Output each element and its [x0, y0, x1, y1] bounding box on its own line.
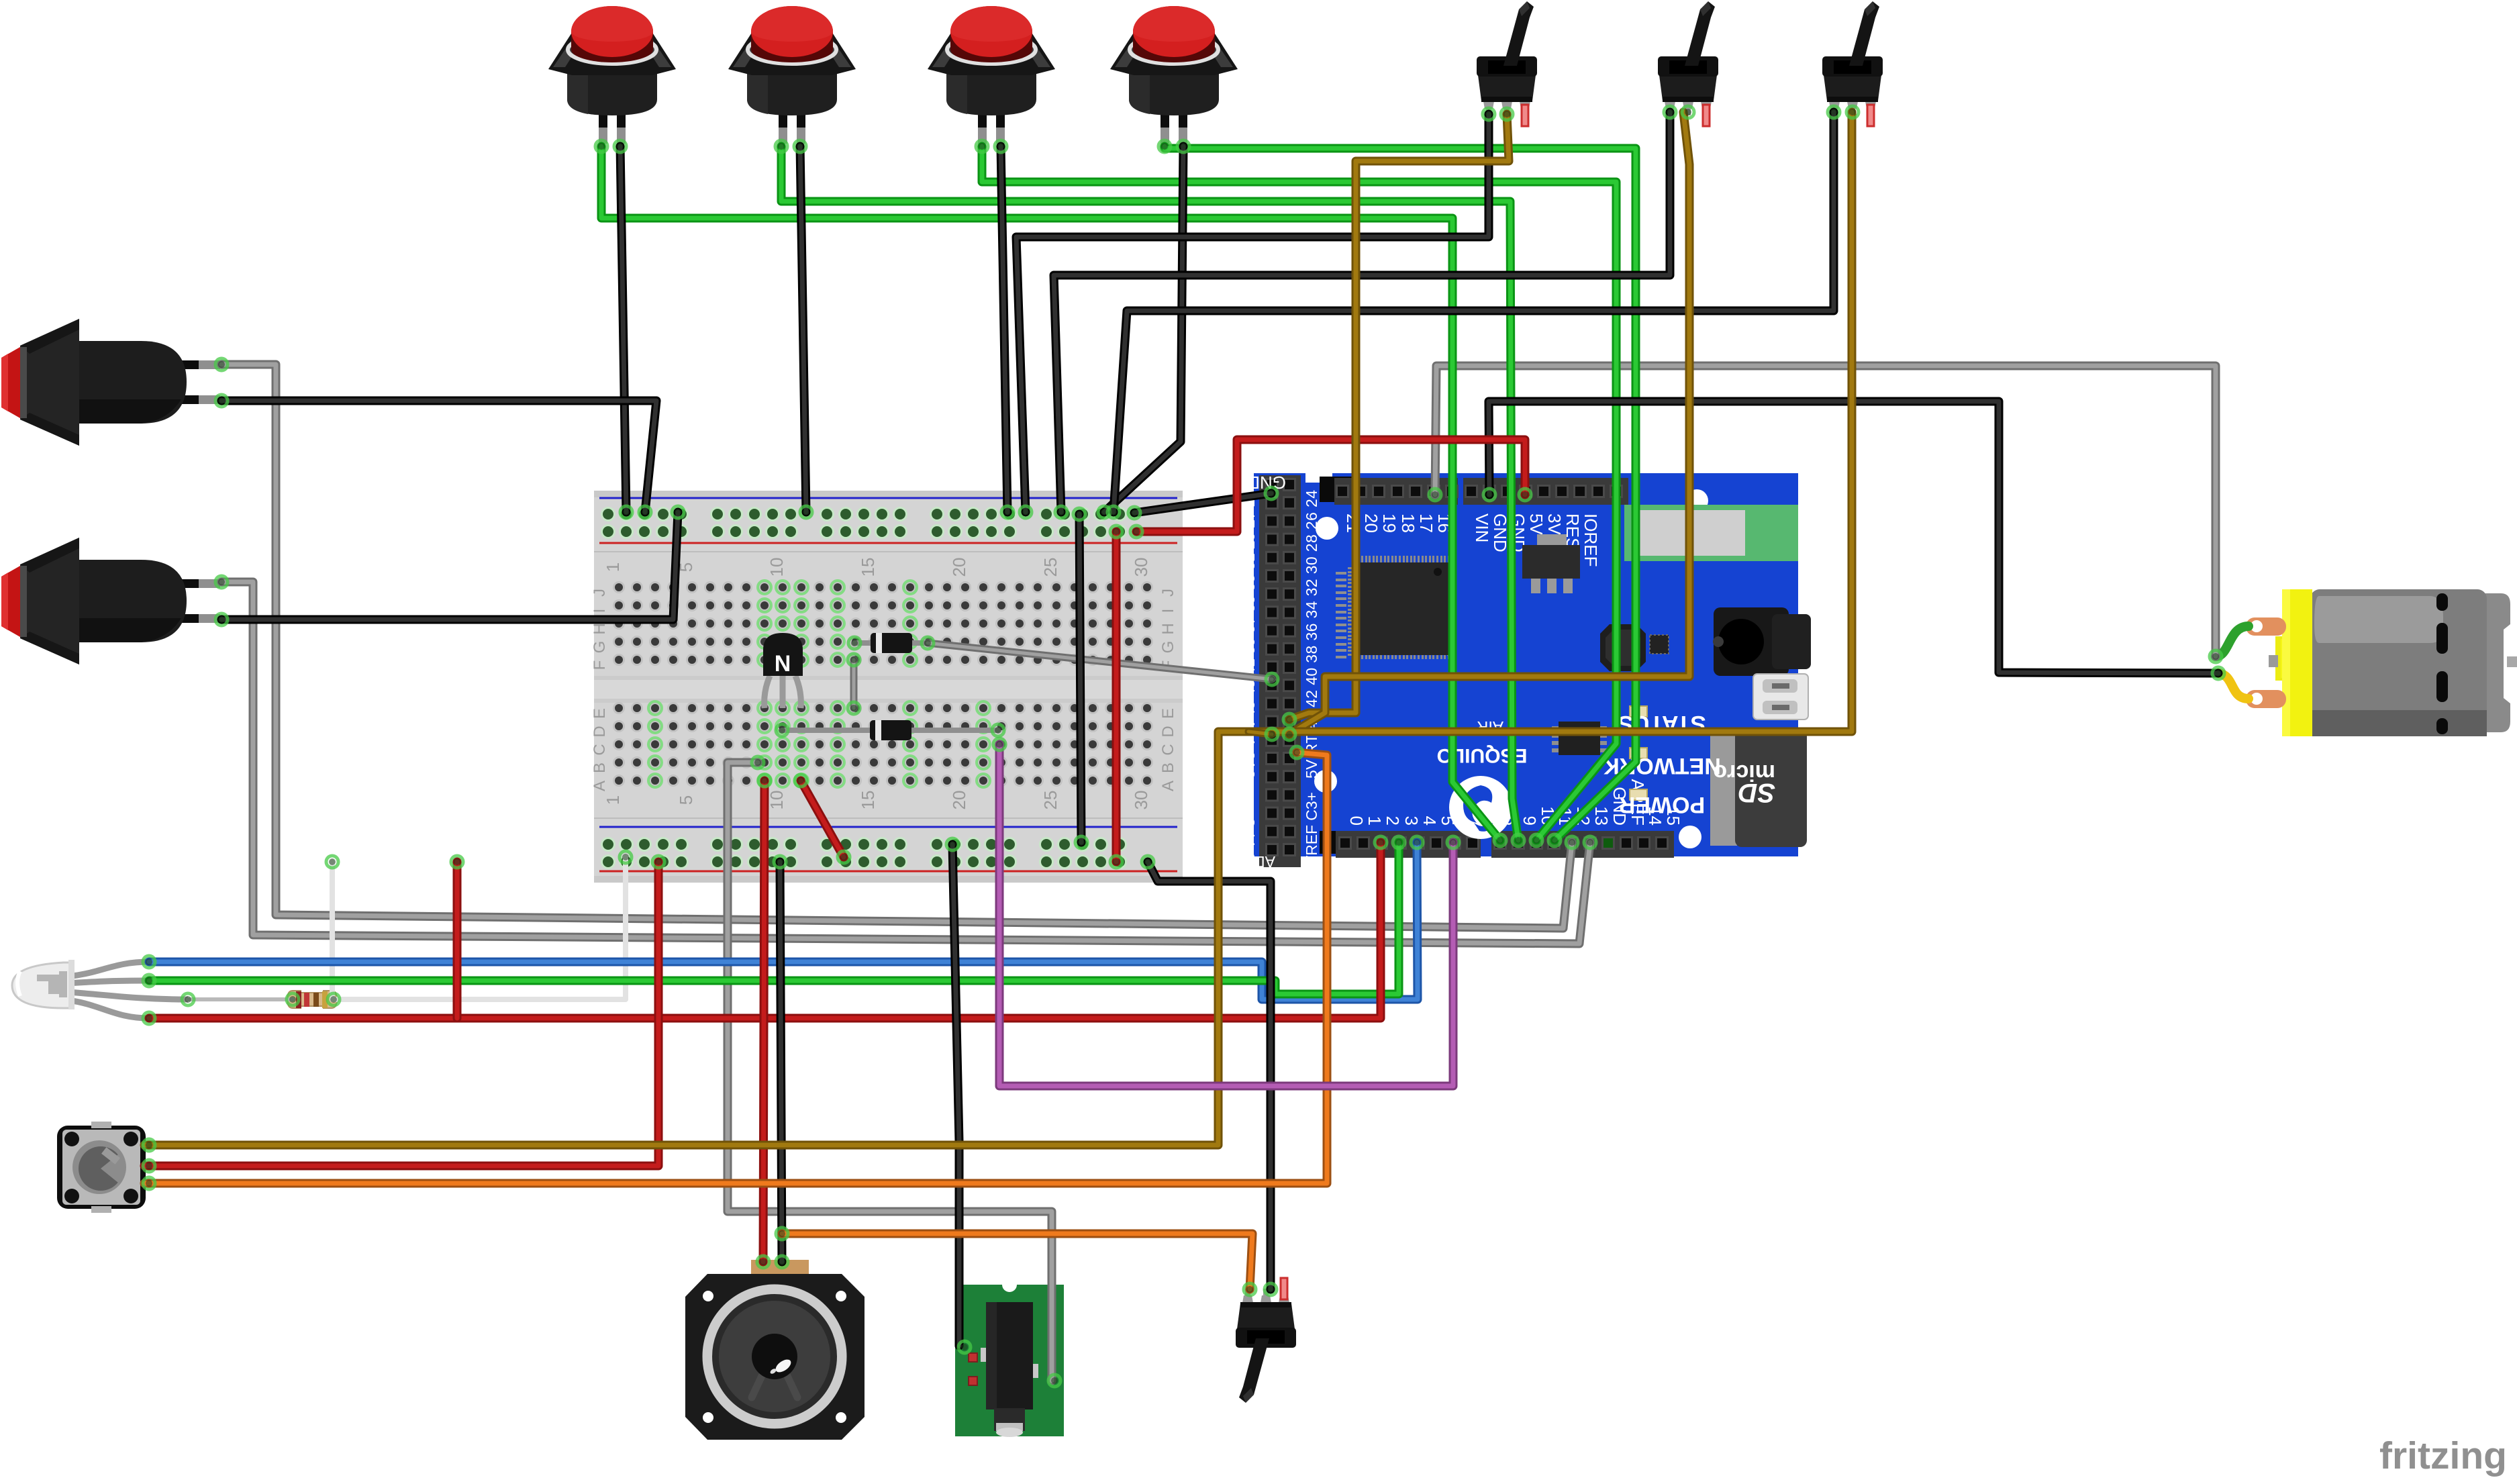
svg-text:D: D	[1159, 726, 1177, 737]
svg-text:5V: 5V	[1526, 513, 1546, 535]
svg-text:D: D	[591, 726, 609, 737]
crystal/oscillator octagon	[1600, 624, 1646, 671]
svg-text:H: H	[591, 623, 609, 634]
svg-text:9: 9	[1520, 816, 1540, 826]
wire: button S1 black to top rail	[620, 146, 626, 512]
wire: gold stub header pin 25	[1248, 732, 1272, 734]
svg-text:G: G	[1159, 641, 1177, 654]
speaker SPK1	[685, 1260, 865, 1440]
wire: red diagonal A12 to bottom rail	[801, 781, 844, 857]
svg-text:C: C	[591, 744, 609, 755]
voltage regulator	[1537, 534, 1567, 545]
svg-text:N: N	[775, 651, 791, 677]
wire: toggle SW2 gold to header pin 26	[1289, 112, 1689, 734]
svg-text:30: 30	[1131, 558, 1151, 577]
svg-text:I: I	[1159, 609, 1177, 613]
wire: LED blue to pin 4	[149, 842, 1418, 999]
Esquilo logo	[1449, 776, 1512, 839]
wire: speaker junction orange to bottom toggle SW4	[782, 1234, 1252, 1289]
RF/antenna module	[1624, 505, 1798, 561]
motor yellow lead	[2218, 673, 2249, 699]
microSD card	[1710, 732, 1737, 846]
wire: diode D1 gray lead to header pin 32	[928, 643, 1272, 679]
resistor R1	[287, 991, 337, 1008]
pushbutton S3	[928, 6, 1055, 144]
wire: gray jumper F13-E13	[850, 660, 858, 708]
motor green lead	[2216, 626, 2249, 656]
svg-text:17: 17	[1416, 513, 1436, 533]
wire: button S1 green to pin 8	[601, 146, 1500, 840]
svg-text:VREF C3+: VREF C3+	[1303, 792, 1320, 866]
DC motor M1	[2216, 589, 2517, 736]
svg-text:C: C	[1159, 744, 1177, 755]
svg-text:20: 20	[949, 791, 969, 810]
svg-text:4: 4	[1420, 816, 1440, 826]
wire: lamp L2 gray lead to pin 13	[221, 582, 1590, 944]
svg-text:SD: SD	[1738, 778, 1775, 807]
wire: lamp L1 black to top rail	[221, 401, 656, 512]
pushbutton S1	[548, 6, 676, 144]
DC barrel jack	[1714, 607, 1789, 676]
top pin header 21-16	[1334, 478, 1458, 505]
svg-text:20: 20	[1361, 513, 1381, 533]
svg-text:ADC4+: ADC4+	[1225, 853, 1275, 871]
svg-text:POWER: POWER	[1619, 792, 1705, 818]
svg-text:E: E	[1159, 708, 1177, 719]
wire: toggle SW1 gold to header pin 27	[1289, 114, 1509, 720]
svg-text:2: 2	[1383, 816, 1403, 826]
svg-text:E: E	[591, 708, 609, 719]
diode D1	[854, 633, 928, 653]
svg-text:30: 30	[1131, 791, 1151, 810]
wire: motor gray to header pin 16	[1435, 366, 2216, 656]
wire: lamp L2 black to top rail	[221, 512, 678, 620]
wire: lamp L1 gray lead to pin 12	[221, 364, 1572, 928]
svg-text:13: 13	[1591, 806, 1612, 826]
wire: button S3 black to top rail	[1001, 146, 1007, 512]
wire: button S2 black to top rail	[800, 146, 806, 512]
svg-text:F: F	[591, 660, 609, 671]
svg-text:10: 10	[767, 558, 787, 577]
wire: LED green to pin 3	[149, 842, 1399, 994]
top pin header VIN-IOREF	[1463, 478, 1628, 505]
svg-text:A: A	[1159, 781, 1177, 791]
wire: button S4 black to top rail	[1104, 146, 1183, 512]
svg-text:10: 10	[767, 791, 787, 810]
wire: toggle SW3 black to top rail	[1114, 112, 1834, 512]
wire: breadboard B8 gray to audio jack sleeve	[728, 762, 1052, 1381]
wire: LED red to pin 2	[149, 842, 1381, 1018]
wire: red stub bottom rail to LED red line	[453, 862, 462, 1018]
wire: white jumper rail to resistor node	[332, 857, 626, 999]
svg-text:G: G	[591, 641, 609, 654]
wire: black jumper top rail to bottom rail	[1079, 514, 1081, 842]
wire: button S2 green to pin 9	[781, 146, 1518, 840]
resistor R1 thin leads	[188, 997, 293, 1001]
wire: bottom rail black to audio jack tip	[952, 844, 959, 1346]
svg-text:0: 0	[1346, 816, 1367, 826]
wire: bottom rail black to speaker	[780, 862, 782, 1262]
svg-text:VIN: VIN	[1472, 513, 1492, 542]
pushbutton S4	[1110, 6, 1238, 144]
wire: toggle SW2 black to top rail	[1054, 112, 1670, 512]
micro USB connector	[1753, 674, 1808, 720]
svg-text:18: 18	[1398, 513, 1418, 533]
svg-text:1: 1	[603, 562, 623, 572]
toggle switch SW3	[1822, 1, 1883, 126]
small IC	[1552, 726, 1560, 730]
toggle switch SW1	[1477, 1, 1537, 126]
wire: GND header to motor yellow lead	[1489, 401, 2218, 673]
svg-text:I: I	[591, 609, 609, 613]
svg-text:B: B	[1159, 762, 1177, 773]
diode D2	[782, 720, 998, 740]
wire: encoder orange to header pin DAC	[144, 752, 1327, 1183]
wire: breadboard rail to board GND jumper	[1134, 493, 1271, 513]
breadboard	[591, 491, 1183, 883]
bottom pin header 0-7	[1336, 831, 1481, 858]
wire: red jumper top rail to bottom rail	[1112, 532, 1121, 862]
wire: red 5V to breadboard top rail	[1136, 440, 1525, 532]
svg-text:25: 25	[1040, 791, 1060, 810]
pushbutton S2	[728, 6, 856, 144]
svg-text:J: J	[591, 589, 609, 597]
left pin header J-left	[1259, 475, 1301, 867]
rotary encoder ENC1	[57, 1122, 146, 1213]
svg-text:IOREF: IOREF	[1581, 513, 1601, 566]
svg-text:1: 1	[1365, 816, 1385, 826]
wire: bottom toggle SW4 black to bottom rail	[1148, 862, 1271, 1289]
svg-text:5: 5	[676, 795, 696, 805]
wire: button S3 green to pin 10	[982, 146, 1616, 840]
wire: encoder red to bottom rail	[144, 862, 658, 1166]
wire: red A10 to speaker	[763, 781, 764, 1262]
svg-text:H: H	[1159, 623, 1177, 634]
Esquilo Air microcontroller board U1	[1225, 473, 1811, 871]
toggle switch SW4 (inverted)	[1236, 1278, 1296, 1403]
svg-text:19: 19	[1379, 513, 1399, 533]
toggle switch SW2	[1658, 1, 1718, 126]
RGB LED D3	[12, 960, 188, 1018]
svg-text:B: B	[591, 762, 609, 773]
QFP main chip	[1348, 567, 1357, 569]
svg-text:25: 25	[1040, 558, 1060, 577]
wire: toggle SW3 gold to encoder A	[144, 112, 1852, 1145]
bottom pin header 8-15	[1491, 831, 1674, 858]
connection nodes	[595, 140, 607, 152]
svg-text:15: 15	[858, 791, 878, 810]
indicator lamp L2	[1, 538, 220, 664]
svg-text:A: A	[591, 781, 609, 791]
svg-text:15: 15	[858, 558, 878, 577]
svg-text:fritzing: fritzing	[2379, 1434, 2507, 1477]
svg-text:J: J	[1159, 589, 1177, 597]
audio jack board J2	[955, 1277, 1064, 1437]
indicator lamp L1	[1, 319, 220, 446]
svg-text:1: 1	[603, 795, 623, 805]
wire: purple C21 to pin 6	[999, 744, 1453, 1086]
status LEDs and labels	[1630, 706, 1647, 717]
wire: toggle SW1 black to top rail	[1016, 114, 1489, 512]
svg-text:3: 3	[1401, 816, 1422, 826]
wire: button S4 green to pin 11	[1165, 146, 1636, 840]
svg-text:20: 20	[949, 558, 969, 577]
transistor Q1	[763, 633, 803, 708]
